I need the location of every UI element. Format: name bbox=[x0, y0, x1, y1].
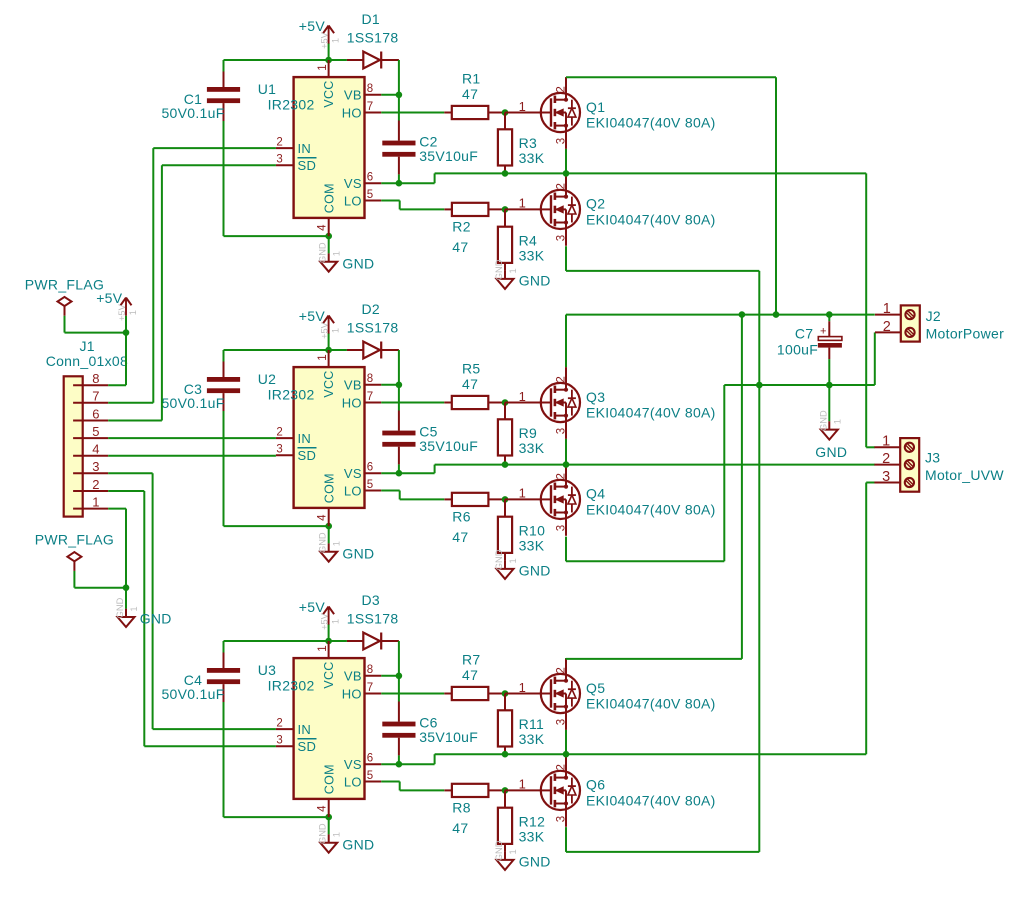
svg-text:R8: R8 bbox=[452, 799, 471, 815]
svg-text:50V0.1uF: 50V0.1uF bbox=[161, 686, 224, 702]
svg-text:50V0.1uF: 50V0.1uF bbox=[161, 105, 224, 121]
svg-text:U1: U1 bbox=[258, 81, 277, 97]
svg-text:33K: 33K bbox=[519, 247, 545, 263]
svg-text:1: 1 bbox=[331, 328, 341, 333]
svg-text:VS: VS bbox=[344, 757, 362, 772]
svg-text:3: 3 bbox=[276, 735, 282, 747]
svg-text:VCC: VCC bbox=[322, 370, 336, 397]
svg-text:SD: SD bbox=[298, 448, 317, 463]
svg-text:8: 8 bbox=[367, 664, 373, 676]
svg-text:R2: R2 bbox=[452, 218, 471, 234]
svg-text:IN: IN bbox=[298, 141, 312, 156]
svg-text:D3: D3 bbox=[361, 592, 380, 608]
svg-text:Q4: Q4 bbox=[586, 486, 605, 502]
svg-text:J1: J1 bbox=[80, 338, 95, 354]
svg-text:PWR_FLAG: PWR_FLAG bbox=[25, 277, 104, 293]
svg-text:2: 2 bbox=[882, 451, 890, 467]
svg-text:1: 1 bbox=[317, 64, 329, 70]
svg-text:U3: U3 bbox=[258, 662, 277, 678]
svg-text:1: 1 bbox=[508, 558, 518, 563]
svg-text:R3: R3 bbox=[519, 135, 538, 151]
svg-text:1: 1 bbox=[519, 196, 526, 211]
svg-text:1: 1 bbox=[508, 849, 518, 854]
svg-text:GND: GND bbox=[815, 444, 847, 460]
svg-text:R12: R12 bbox=[519, 813, 546, 829]
svg-text:GND: GND bbox=[519, 563, 551, 579]
svg-text:GND: GND bbox=[342, 255, 374, 271]
svg-text:GND: GND bbox=[342, 836, 374, 852]
svg-text:EKI04047(40V 80A): EKI04047(40V 80A) bbox=[586, 695, 716, 711]
svg-text:SD: SD bbox=[298, 739, 317, 754]
svg-text:GND: GND bbox=[494, 840, 504, 861]
svg-text:2: 2 bbox=[276, 427, 282, 439]
svg-text:Motor_UVW: Motor_UVW bbox=[925, 467, 1004, 483]
svg-text:1: 1 bbox=[519, 680, 526, 695]
svg-text:1: 1 bbox=[882, 434, 890, 450]
svg-text:EKI04047(40V 80A): EKI04047(40V 80A) bbox=[586, 501, 716, 517]
svg-text:COM: COM bbox=[322, 473, 336, 503]
svg-text:VB: VB bbox=[344, 88, 362, 103]
svg-text:+5V: +5V bbox=[299, 18, 326, 34]
svg-text:GND: GND bbox=[140, 611, 172, 627]
svg-text:6: 6 bbox=[367, 172, 373, 184]
svg-text:33K: 33K bbox=[519, 537, 545, 553]
svg-text:5: 5 bbox=[367, 770, 373, 782]
svg-text:3: 3 bbox=[276, 444, 282, 456]
svg-text:1: 1 bbox=[331, 619, 341, 624]
svg-text:Q5: Q5 bbox=[586, 680, 605, 696]
svg-text:C6: C6 bbox=[419, 714, 438, 730]
svg-text:1: 1 bbox=[519, 99, 526, 114]
svg-text:D1: D1 bbox=[361, 11, 380, 27]
svg-text:47: 47 bbox=[452, 529, 468, 545]
svg-text:5: 5 bbox=[92, 424, 99, 439]
svg-text:IR2302: IR2302 bbox=[268, 97, 315, 113]
svg-text:35V10uF: 35V10uF bbox=[419, 438, 478, 454]
svg-text:2: 2 bbox=[883, 319, 891, 335]
svg-text:1: 1 bbox=[883, 301, 891, 317]
svg-text:D2: D2 bbox=[361, 301, 380, 317]
svg-text:1SS178: 1SS178 bbox=[347, 29, 399, 45]
svg-text:4: 4 bbox=[317, 514, 329, 521]
svg-text:R1: R1 bbox=[462, 70, 481, 86]
svg-text:3: 3 bbox=[92, 459, 99, 474]
svg-text:VS: VS bbox=[344, 466, 362, 481]
svg-text:7: 7 bbox=[367, 682, 373, 694]
svg-text:2: 2 bbox=[556, 86, 568, 92]
svg-text:35V10uF: 35V10uF bbox=[419, 148, 478, 164]
svg-text:GND: GND bbox=[494, 259, 504, 280]
svg-text:8: 8 bbox=[92, 371, 99, 386]
svg-text:GND: GND bbox=[318, 242, 328, 263]
svg-text:HO: HO bbox=[342, 395, 362, 410]
svg-text:+5V: +5V bbox=[320, 31, 330, 49]
svg-text:3: 3 bbox=[556, 138, 568, 144]
svg-text:4: 4 bbox=[317, 224, 329, 231]
svg-text:R6: R6 bbox=[452, 508, 471, 524]
svg-text:GND: GND bbox=[342, 545, 374, 561]
svg-text:SD: SD bbox=[298, 158, 317, 173]
svg-text:Q2: Q2 bbox=[586, 196, 605, 212]
svg-text:GND: GND bbox=[519, 854, 551, 870]
svg-text:1: 1 bbox=[92, 494, 99, 509]
svg-text:50V0.1uF: 50V0.1uF bbox=[161, 395, 224, 411]
svg-text:33K: 33K bbox=[519, 731, 545, 747]
svg-text:3: 3 bbox=[276, 154, 282, 166]
svg-text:GND: GND bbox=[318, 823, 328, 844]
svg-text:47: 47 bbox=[462, 86, 478, 102]
svg-text:1: 1 bbox=[128, 310, 138, 315]
svg-text:J3: J3 bbox=[925, 450, 940, 466]
svg-text:GND: GND bbox=[818, 410, 828, 431]
svg-text:1: 1 bbox=[832, 419, 842, 424]
svg-text:6: 6 bbox=[92, 406, 99, 421]
svg-text:1: 1 bbox=[332, 541, 342, 546]
svg-text:EKI04047(40V 80A): EKI04047(40V 80A) bbox=[586, 211, 716, 227]
svg-text:3: 3 bbox=[556, 525, 568, 531]
svg-text:LO: LO bbox=[344, 774, 362, 789]
svg-text:5: 5 bbox=[367, 189, 373, 201]
svg-text:R4: R4 bbox=[519, 232, 538, 248]
svg-text:+5V: +5V bbox=[320, 612, 330, 630]
svg-text:PWR_FLAG: PWR_FLAG bbox=[35, 532, 114, 548]
svg-text:3: 3 bbox=[882, 469, 890, 485]
svg-text:HO: HO bbox=[342, 686, 362, 701]
svg-text:IN: IN bbox=[298, 431, 312, 446]
svg-text:+: + bbox=[820, 325, 826, 337]
svg-text:+5V: +5V bbox=[299, 599, 326, 615]
svg-text:3: 3 bbox=[556, 235, 568, 241]
svg-text:GND: GND bbox=[494, 549, 504, 570]
svg-text:+5V: +5V bbox=[299, 308, 326, 324]
svg-text:+5V: +5V bbox=[117, 303, 127, 321]
svg-text:LO: LO bbox=[344, 483, 362, 498]
svg-text:1: 1 bbox=[519, 486, 526, 501]
svg-text:COM: COM bbox=[322, 183, 336, 213]
svg-text:7: 7 bbox=[367, 101, 373, 113]
svg-text:IR2302: IR2302 bbox=[268, 678, 315, 694]
svg-text:8: 8 bbox=[367, 373, 373, 385]
svg-text:3: 3 bbox=[556, 816, 568, 822]
svg-text:7: 7 bbox=[367, 391, 373, 403]
svg-text:100uF: 100uF bbox=[777, 342, 818, 358]
svg-text:HO: HO bbox=[342, 105, 362, 120]
svg-text:VCC: VCC bbox=[322, 80, 336, 107]
svg-text:2: 2 bbox=[556, 667, 568, 673]
svg-text:COM: COM bbox=[322, 764, 336, 794]
svg-text:1: 1 bbox=[129, 606, 139, 611]
svg-text:2: 2 bbox=[556, 473, 568, 479]
svg-text:1: 1 bbox=[332, 251, 342, 256]
svg-text:3: 3 bbox=[556, 719, 568, 725]
svg-text:VB: VB bbox=[344, 669, 362, 684]
svg-text:VCC: VCC bbox=[322, 661, 336, 688]
svg-text:U2: U2 bbox=[258, 371, 277, 387]
svg-text:GND: GND bbox=[318, 532, 328, 553]
svg-text:GND: GND bbox=[519, 273, 551, 289]
svg-text:1SS178: 1SS178 bbox=[347, 610, 399, 626]
svg-text:47: 47 bbox=[462, 667, 478, 683]
svg-text:2: 2 bbox=[556, 183, 568, 189]
svg-text:R7: R7 bbox=[462, 651, 481, 667]
svg-text:1: 1 bbox=[519, 389, 526, 404]
svg-text:1: 1 bbox=[508, 268, 518, 273]
svg-text:5: 5 bbox=[367, 479, 373, 491]
svg-text:EKI04047(40V 80A): EKI04047(40V 80A) bbox=[586, 404, 716, 420]
svg-text:VS: VS bbox=[344, 176, 362, 191]
svg-text:EKI04047(40V 80A): EKI04047(40V 80A) bbox=[586, 792, 716, 808]
svg-text:IN: IN bbox=[298, 722, 312, 737]
svg-text:Conn_01x08: Conn_01x08 bbox=[46, 353, 128, 369]
svg-text:1: 1 bbox=[331, 38, 341, 43]
svg-text:R11: R11 bbox=[519, 716, 545, 732]
svg-text:J2: J2 bbox=[926, 308, 941, 324]
svg-text:IR2302: IR2302 bbox=[268, 387, 315, 403]
svg-text:47: 47 bbox=[452, 820, 468, 836]
svg-text:47: 47 bbox=[452, 239, 468, 255]
svg-text:1: 1 bbox=[317, 354, 329, 360]
svg-text:R5: R5 bbox=[462, 360, 481, 376]
svg-text:GND: GND bbox=[115, 597, 125, 618]
svg-text:2: 2 bbox=[556, 376, 568, 382]
svg-text:LO: LO bbox=[344, 193, 362, 208]
svg-text:6: 6 bbox=[367, 753, 373, 765]
svg-text:35V10uF: 35V10uF bbox=[419, 729, 478, 745]
svg-text:R10: R10 bbox=[519, 522, 546, 538]
svg-text:6: 6 bbox=[367, 462, 373, 474]
svg-text:7: 7 bbox=[92, 389, 99, 404]
svg-text:MotorPower: MotorPower bbox=[926, 326, 1005, 342]
svg-text:1: 1 bbox=[519, 777, 526, 792]
svg-text:33K: 33K bbox=[519, 150, 545, 166]
svg-text:R9: R9 bbox=[519, 425, 538, 441]
svg-text:2: 2 bbox=[276, 137, 282, 149]
svg-text:C2: C2 bbox=[419, 133, 438, 149]
svg-text:+5V: +5V bbox=[320, 321, 330, 339]
svg-text:VB: VB bbox=[344, 378, 362, 393]
svg-text:C5: C5 bbox=[419, 423, 438, 439]
svg-text:4: 4 bbox=[317, 805, 329, 812]
svg-text:33K: 33K bbox=[519, 440, 545, 456]
svg-text:Q6: Q6 bbox=[586, 777, 605, 793]
svg-text:C7: C7 bbox=[795, 326, 814, 342]
svg-text:1: 1 bbox=[332, 832, 342, 837]
svg-text:Q1: Q1 bbox=[586, 99, 605, 115]
svg-text:4: 4 bbox=[92, 442, 99, 457]
svg-text:3: 3 bbox=[556, 428, 568, 434]
svg-text:1SS178: 1SS178 bbox=[347, 319, 399, 335]
svg-text:Q3: Q3 bbox=[586, 389, 605, 405]
svg-text:33K: 33K bbox=[519, 828, 545, 844]
svg-text:47: 47 bbox=[462, 376, 478, 392]
svg-text:2: 2 bbox=[92, 477, 99, 492]
svg-text:EKI04047(40V 80A): EKI04047(40V 80A) bbox=[586, 114, 716, 130]
svg-text:2: 2 bbox=[556, 764, 568, 770]
svg-text:2: 2 bbox=[276, 718, 282, 730]
svg-text:8: 8 bbox=[367, 83, 373, 95]
svg-text:1: 1 bbox=[317, 645, 329, 651]
